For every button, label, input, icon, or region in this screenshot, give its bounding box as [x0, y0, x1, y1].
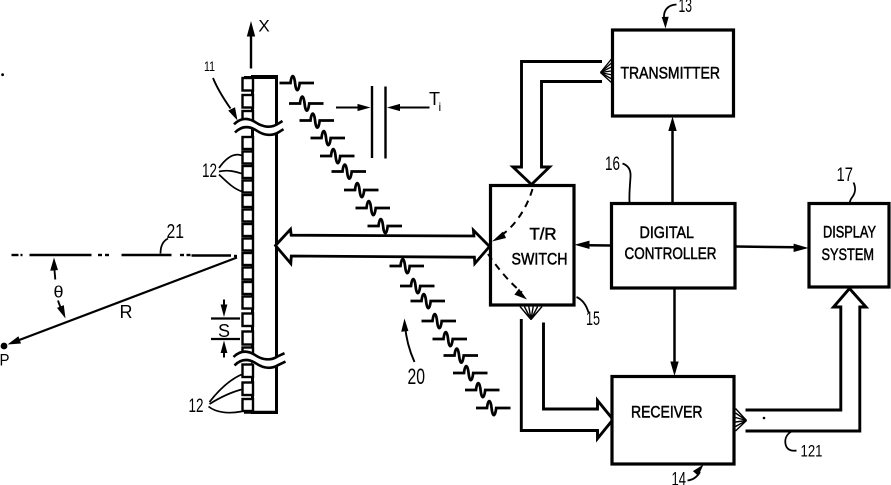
- svg-text:R: R: [120, 302, 133, 322]
- speck near bus: [763, 417, 766, 420]
- line R to point P: [8, 258, 238, 345]
- leaders for upper 12: [219, 155, 242, 192]
- wire controller to display system: [736, 244, 809, 252]
- transducer array bar 11: [244, 77, 277, 413]
- svg-text:12: 12: [202, 161, 217, 182]
- hollow double-headed arrow array to T/R switch: [276, 229, 490, 263]
- spacing marker S upper arrow: [221, 300, 228, 318]
- svg-text:16: 16: [605, 154, 620, 175]
- leader for 15: [577, 297, 589, 313]
- angle theta arc: [50, 258, 65, 319]
- hollow arrow receiver to display system: [746, 289, 867, 432]
- block T/R SWITCH 15: [491, 186, 575, 306]
- svg-text:θ: θ: [54, 283, 64, 302]
- X axis arrow: [247, 21, 255, 69]
- svg-text:21: 21: [167, 220, 185, 243]
- svg-text:13: 13: [679, 0, 693, 17]
- svg-text:SWITCH: SWITCH: [512, 251, 568, 269]
- svg-text:20: 20: [408, 364, 426, 389]
- svg-text:CONTROLLER: CONTROLLER: [625, 245, 717, 263]
- hollow arrow T/R to receiver: [521, 319, 613, 439]
- leader for 20: [401, 319, 414, 363]
- fan of wires at transmitter input: [601, 57, 614, 85]
- pulse wavelet train (upper, transmitted): [280, 76, 403, 233]
- svg-text:DISPLAY: DISPLAY: [823, 224, 876, 242]
- leader for 11: [213, 78, 238, 121]
- time interval Ti marker lines: [372, 86, 386, 159]
- block DIGITAL CONTROLLER 16: [612, 204, 736, 289]
- fan of wires at receiver output: [736, 409, 747, 432]
- svg-text:TRANSMITTER: TRANSMITTER: [621, 65, 721, 83]
- svg-text:DIGITAL: DIGITAL: [640, 224, 695, 242]
- dashed axis line 21: [12, 255, 238, 256]
- svg-text:12: 12: [189, 396, 204, 417]
- leader for 17: [850, 183, 855, 204]
- fan of wires at T/R bottom: [520, 307, 542, 320]
- svg-text:121: 121: [801, 443, 823, 461]
- Ti left arrow: [336, 104, 371, 111]
- spacing marker S ticks: [211, 319, 240, 340]
- leader for 121: [785, 432, 796, 451]
- pulse wavelet train (lower, 20): [390, 259, 511, 415]
- wire controller to transmitter: [668, 117, 676, 204]
- speck top left: [1, 73, 4, 76]
- svg-text:RECEIVER: RECEIVER: [631, 404, 703, 422]
- hollow arrow T/R to transmitter: [513, 62, 602, 185]
- block RECEIVER 14: [612, 377, 734, 465]
- leaders for lower 12: [209, 375, 242, 413]
- break squiggle (upper) on array: [234, 119, 284, 135]
- leader for 21: [161, 239, 169, 254]
- Ti right arrow: [387, 104, 430, 111]
- svg-text:T/R: T/R: [530, 226, 557, 244]
- array elements 12 (top group): [243, 78, 254, 123]
- array elements 12 (middle group): [243, 137, 254, 356]
- break squiggle (lower) on array: [234, 352, 286, 368]
- svg-text:i: i: [439, 100, 442, 114]
- svg-text:SYSTEM: SYSTEM: [822, 246, 875, 264]
- svg-text:17: 17: [837, 165, 854, 186]
- wire controller to T/R switch: [575, 241, 612, 249]
- spacing marker S lower arrow: [221, 341, 228, 358]
- block DISPLAY SYSTEM 17: [809, 204, 889, 288]
- svg-text:14: 14: [672, 470, 687, 485]
- dashed path receive (T/R left to bottom): [488, 254, 527, 300]
- wire controller to receiver: [670, 289, 678, 377]
- svg-text:11: 11: [204, 58, 215, 74]
- leader for 14: [688, 465, 704, 481]
- dashed path transmit (T/R top to left): [492, 189, 533, 242]
- label Ti: [429, 89, 441, 114]
- svg-text:S: S: [218, 321, 230, 341]
- leader for 13: [662, 5, 677, 29]
- array elements 12 (bottom group): [243, 365, 254, 412]
- block TRANSMITTER 13: [613, 30, 734, 116]
- svg-text:X: X: [258, 17, 269, 36]
- svg-text:P: P: [0, 352, 10, 370]
- leader for 16: [623, 164, 631, 203]
- point P dot: [1, 343, 8, 350]
